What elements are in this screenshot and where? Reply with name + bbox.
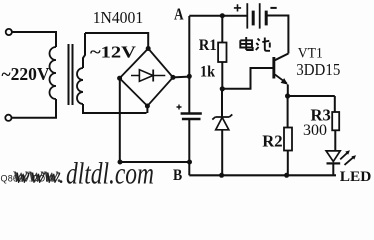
svg-text:R1: R1 [199,37,217,54]
svg-text:R2: R2 [262,131,282,150]
svg-text:LED: LED [340,169,372,185]
svg-text:A: A [174,5,184,24]
svg-text:dltdl.com: dltdl.com [66,156,154,189]
svg-text:300: 300 [303,122,327,139]
svg-text:~12V: ~12V [90,43,137,62]
svg-text:B: B [173,167,182,184]
svg-text:1k: 1k [200,64,215,81]
svg-text:1N4001: 1N4001 [93,8,144,27]
svg-text:Q866V.COM: Q866V.COM [1,174,54,184]
svg-text:3DD15: 3DD15 [296,60,340,79]
svg-text:~220V: ~220V [2,64,50,84]
